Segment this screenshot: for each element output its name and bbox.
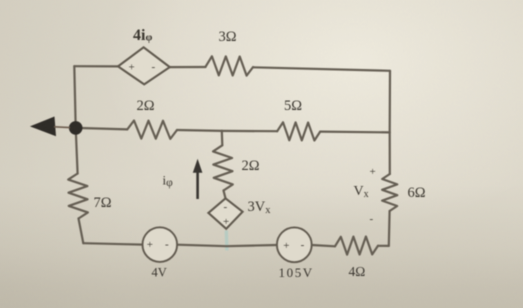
- wire 2-ohm vertical to 3Vx diamond: [224, 191, 226, 199]
- wire arrow to node: [54, 126, 70, 129]
- wire 105V to 4-ohm: [312, 245, 335, 246]
- resistor R 2ohm middle zigzag: [127, 121, 177, 139]
- wire node to 2-ohm: [76, 128, 128, 129]
- wire 7-ohm to bottom-left corner: [79, 219, 84, 244]
- dependent source U1 4i-phi diamond: [118, 47, 170, 84]
- wire diamond to 3-ohm: [170, 66, 206, 68]
- resistor R 3ohm zigzag: [206, 56, 254, 75]
- wire 6-ohm to bottom-right corner: [388, 211, 391, 246]
- arrow i-phi up: [193, 159, 203, 199]
- wire right side vertical middle: [389, 132, 391, 174]
- wire 4-ohm to bottom-right corner: [378, 245, 389, 247]
- wire teal stub below 3Vx diamond: [225, 231, 229, 251]
- wire node to 7-ohm: [76, 128, 78, 174]
- wire bottom-left to 4V source: [83, 243, 142, 244]
- resistor R 2ohm vertical zigzag: [213, 145, 233, 190]
- wire 4V to middle bottom junction: [177, 245, 277, 247]
- wire middle junction stub down: [221, 131, 224, 145]
- wire left side vertical top: [74, 66, 75, 128]
- wire right side vertical top: [389, 71, 391, 133]
- wire 5-ohm to right wire: [320, 131, 390, 134]
- resistor R 5ohm zigzag: [277, 122, 320, 140]
- voltage source V1 4V circle: [143, 227, 178, 262]
- dependent source U2 3Vx diamond: [208, 198, 242, 229]
- resistor R 7ohm zigzag: [68, 174, 88, 219]
- node A dot: [69, 121, 83, 135]
- arrow current probe pointing left: [30, 117, 56, 137]
- wire top-left to diamond: [74, 65, 118, 67]
- resistor R 4ohm zigzag: [335, 237, 378, 255]
- wire 2-ohm to middle junction: [177, 129, 222, 132]
- resistor R 6ohm zigzag: [382, 174, 397, 211]
- wire middle junction to 5-ohm: [222, 130, 277, 133]
- voltage source V2 105V circle: [277, 227, 312, 262]
- wire 3-ohm to top-right corner: [253, 67, 390, 71]
